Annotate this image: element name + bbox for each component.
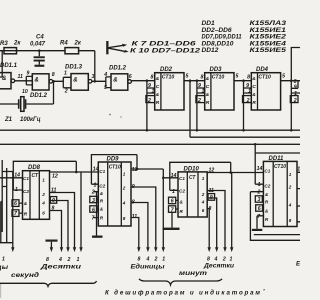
scan artifact: small specks near crystal label [109, 114, 122, 118]
svg-text:&: & [2, 76, 6, 82]
svg-text:12: 12 [52, 173, 58, 179]
svg-text:2: 2 [257, 190, 261, 196]
svg-text:R: R [252, 100, 256, 106]
svg-text:СТ10: СТ10 [109, 164, 121, 170]
svg-text:2: 2 [293, 98, 297, 104]
svg-text:1: 1 [123, 172, 126, 177]
ground: common-rail tie below DD10 [163, 212, 180, 230]
svg-text:9: 9 [27, 71, 30, 77]
svg-text:5: 5 [282, 74, 285, 80]
svg-text:4: 4 [122, 201, 126, 206]
svg-text:1: 1 [202, 89, 205, 95]
svg-text:Десятки: Десятки [203, 263, 235, 269]
svg-text:&: & [252, 76, 256, 82]
svg-text:C2: C2 [23, 189, 29, 194]
svg-text:C: C [206, 84, 210, 90]
ground: common-rail tie below DD8 [46, 240, 58, 253]
svg-text:минут: минут [179, 271, 208, 277]
svg-text:2: 2 [201, 192, 205, 197]
svg-text:6: 6 [42, 211, 45, 216]
svg-text:СТ10: СТ10 [258, 75, 271, 81]
svg-text:Единицы: Единицы [0, 265, 9, 271]
svg-text:2: 2 [147, 98, 151, 104]
svg-text:2: 2 [246, 98, 250, 104]
wire: 10kHz tap bus from DD2 output [190, 136, 300, 138]
svg-text:5: 5 [236, 74, 239, 80]
svg-text:DD1.2: DD1.2 [109, 66, 127, 72]
svg-text:2: 2 [41, 192, 45, 197]
node: caption to decoders and indicators [105, 290, 265, 297]
svg-text:Десятки: Десятки [39, 264, 81, 270]
svg-text:6: 6 [171, 199, 174, 205]
svg-text:1: 1 [289, 172, 292, 177]
legend: parts list types column [250, 20, 287, 54]
ground: C4 ground bar [35, 65, 45, 67]
counter DD2 (К155ИЕ1) [146, 67, 189, 132]
svg-text:4: 4 [41, 201, 45, 206]
counter DD7 (К155ИЕ2, clipped at left edge) [0, 160, 15, 271]
svg-text:&: & [113, 78, 117, 84]
svg-text:8: 8 [207, 257, 210, 263]
svg-text:DD1.2: DD1.2 [30, 93, 48, 99]
svg-text:2: 2 [91, 190, 95, 196]
svg-text:8: 8 [138, 257, 141, 263]
svg-text:&: & [206, 92, 210, 98]
svg-text:2: 2 [197, 98, 201, 104]
svg-text:C1: C1 [179, 176, 185, 181]
svg-text:&: & [73, 78, 77, 84]
svg-text:8: 8 [151, 74, 154, 80]
svg-text:1: 1 [77, 257, 80, 263]
op-amp gate DD1.1 [0, 63, 23, 89]
wire: DD9 Q0 feedback loop to C2 [91, 155, 138, 185]
wire: top feedback line from left edge through R3, C4 node, R4 [0, 50, 95, 52]
svg-text:3: 3 [258, 197, 261, 203]
svg-text:8: 8 [247, 74, 250, 80]
wire: reset bus for divider chain [0, 129, 300, 131]
svg-text:4: 4 [103, 72, 107, 78]
wire: DD8 outputs to DD9 and down to decoder arrows [39, 172, 98, 270]
power arrow: К 7 DD1-DD6 / К 10 DD7-DD12 [106, 41, 201, 55]
svg-text:12: 12 [297, 166, 300, 172]
svg-text:9: 9 [52, 198, 55, 204]
svg-text:2к: 2к [13, 41, 21, 47]
svg-text:11: 11 [18, 74, 23, 80]
svg-text:C1: C1 [99, 169, 105, 174]
wire: R3 left lead down to DD1.1 input [0, 51, 2, 77]
svg-text:1: 1 [230, 257, 233, 263]
wire: DD10 outputs to DD11 and down to decoder arrows [203, 173, 264, 270]
svg-text:2: 2 [288, 184, 292, 189]
counter DD4 (К155ИЕ1) [242, 67, 285, 132]
svg-text:6: 6 [14, 201, 17, 207]
capacitor C4 [30, 35, 46, 65]
svg-text:&: & [35, 78, 39, 84]
wire: DD9 outputs to DD10 and down to decoder arrows [131, 169, 179, 270]
svg-text:DD1.1: DD1.1 [0, 63, 18, 69]
node: C4 tap on feedback line [38, 49, 41, 52]
svg-text:2: 2 [154, 257, 158, 263]
ground: common-rail tie below DD9 [92, 236, 103, 238]
svg-text:СТ: СТ [189, 175, 196, 181]
svg-text:1: 1 [152, 89, 155, 95]
svg-text:DD4: DD4 [256, 67, 269, 73]
svg-text:5: 5 [104, 85, 107, 91]
svg-text:8: 8 [289, 218, 292, 223]
svg-text:10: 10 [22, 89, 28, 95]
resistor R3 [0, 41, 21, 54]
svg-text:3: 3 [92, 198, 95, 204]
counter DD11 (К155ИЕ2) [250, 156, 303, 227]
svg-text:14: 14 [171, 173, 177, 179]
svg-text:2: 2 [222, 257, 226, 263]
wire: DD4 output to DD5 (cut at edge) with riser to off-page feedback [281, 48, 300, 82]
svg-text:&: & [156, 92, 160, 98]
svg-text:100кГц: 100кГц [20, 117, 41, 123]
svg-text:К 10 DD7–DD12: К 10 DD7–DD12 [130, 49, 201, 55]
svg-text:DD1.3: DD1.3 [65, 65, 83, 71]
wire: hours-set line to right edge [254, 234, 300, 236]
svg-text:&: & [206, 76, 210, 82]
svg-text:9: 9 [294, 85, 297, 91]
counter DD8 (К155ИЕ4) [12, 165, 58, 219]
svg-text:4: 4 [58, 257, 62, 263]
legend: parts list designators column [202, 20, 242, 54]
ground: common-rail tie below DD11 [252, 216, 262, 231]
svg-text:DD3: DD3 [210, 67, 223, 73]
svg-text:R3: R3 [0, 41, 8, 47]
svg-text:C2: C2 [99, 184, 105, 189]
svg-text:8: 8 [52, 72, 55, 78]
node: seconds group bracket and label [0, 273, 97, 286]
svg-text:2: 2 [122, 186, 126, 191]
svg-text:СТ10: СТ10 [162, 75, 175, 81]
svg-text:1: 1 [162, 257, 165, 263]
crystal Z1 100кГц [0, 81, 54, 123]
counter DD5 (К155ИЕ1, clipped at right edge) [290, 79, 300, 132]
counter DD3 (К155ИЕ1) [196, 67, 239, 132]
svg-text:4: 4 [201, 199, 205, 204]
wire: DD3 output to DD4 [234, 80, 251, 82]
svg-text:C1: C1 [264, 168, 270, 173]
svg-text:4: 4 [288, 202, 292, 207]
svg-text:5: 5 [186, 74, 189, 80]
svg-text:СТ: СТ [32, 173, 39, 179]
resistor R4 [60, 41, 82, 54]
svg-text:К дешифраторам и индикаторам: К дешифраторам и индикаторам [105, 290, 260, 297]
svg-text:1: 1 [64, 70, 67, 76]
svg-text:6: 6 [92, 207, 95, 213]
scan artifact: faint left edge marks [0, 284, 1, 298]
svg-text:2к: 2к [74, 41, 82, 47]
op-amp gate DD1.2 [22, 71, 55, 100]
wire: DD1.4 output to DD2 clock input [131, 80, 154, 82]
svg-text:Z1: Z1 [4, 117, 13, 123]
wire: 1Hz seconds bus [0, 143, 300, 145]
svg-text:Единицы: Единицы [296, 261, 300, 267]
wire: DD1.3 out to DD1.4 with R4 drop [92, 51, 111, 88]
op-amp gate DD1.4 [103, 66, 132, 91]
svg-text:C: C [252, 84, 256, 90]
svg-text:1: 1 [248, 89, 251, 95]
svg-text:3: 3 [92, 74, 95, 80]
svg-text:14: 14 [14, 173, 20, 179]
svg-text:СТ10: СТ10 [274, 164, 286, 170]
wire: DD11 reset line to right edge [250, 192, 300, 241]
svg-text:R: R [156, 100, 160, 106]
node: hours units label (clipped) [296, 261, 320, 267]
wire: DD8 Q0 feedback loop to C2 [13, 161, 77, 190]
wire: DD10 Q0 feedback loop to C2 [170, 162, 232, 190]
svg-text:6: 6 [129, 74, 132, 80]
svg-text:C2: C2 [264, 184, 270, 189]
svg-text:14: 14 [257, 166, 263, 172]
svg-text:СТ10: СТ10 [212, 75, 225, 81]
svg-text:0,047: 0,047 [30, 41, 46, 47]
svg-text:R: R [206, 100, 210, 106]
svg-text:С4: С4 [36, 35, 44, 41]
node: minutes group bracket and label [139, 271, 222, 285]
svg-text:C2: C2 [179, 189, 185, 194]
svg-text:C1: C1 [23, 176, 29, 181]
wire: DD1.1 out to DD1.2 inputs [15, 76, 33, 85]
counter DD9 (К155ИЕ2) [90, 157, 138, 236]
svg-text:секунд: секунд [11, 273, 39, 279]
svg-text:DD12: DD12 [202, 47, 219, 54]
wire: DD1.2 out to DD1.3 with crystal tap [52, 77, 71, 88]
svg-text:1: 1 [258, 182, 261, 188]
svg-text:8: 8 [46, 257, 49, 263]
svg-text:1: 1 [202, 176, 205, 181]
svg-text:6: 6 [258, 206, 261, 212]
svg-text:К155ИЕ5: К155ИЕ5 [250, 47, 287, 54]
svg-text:&: & [252, 92, 256, 98]
svg-text:14: 14 [93, 167, 99, 173]
svg-text:1: 1 [2, 256, 5, 262]
svg-text:2: 2 [67, 257, 71, 263]
svg-text:4: 4 [214, 257, 218, 263]
svg-text:2: 2 [64, 89, 68, 95]
svg-text:1: 1 [294, 91, 297, 97]
svg-text:4: 4 [146, 257, 150, 263]
svg-text:Единицы: Единицы [131, 264, 166, 270]
wire: DD7 output to DD8 C1 input [0, 177, 23, 179]
wire: DD11 C2 feedback loop from seconds bus [254, 143, 300, 184]
svg-text:6: 6 [202, 208, 205, 213]
svg-text:&: & [156, 76, 160, 82]
svg-text:8: 8 [201, 74, 204, 80]
svg-text:R4: R4 [60, 41, 68, 47]
svg-text:1: 1 [94, 182, 97, 188]
op-amp gate DD1.3 [64, 65, 95, 95]
svg-text:C: C [156, 84, 160, 90]
svg-text:8: 8 [123, 216, 126, 221]
svg-text:К 7 DD1–DD6: К 7 DD1–DD6 [132, 42, 197, 48]
counter DD10 (К155ИЕ4) [169, 166, 215, 217]
wire: DD2 output to DD3, tap to 10kHz line [184, 79, 205, 137]
svg-text:DD2: DD2 [160, 67, 173, 73]
svg-text:1: 1 [42, 178, 45, 183]
